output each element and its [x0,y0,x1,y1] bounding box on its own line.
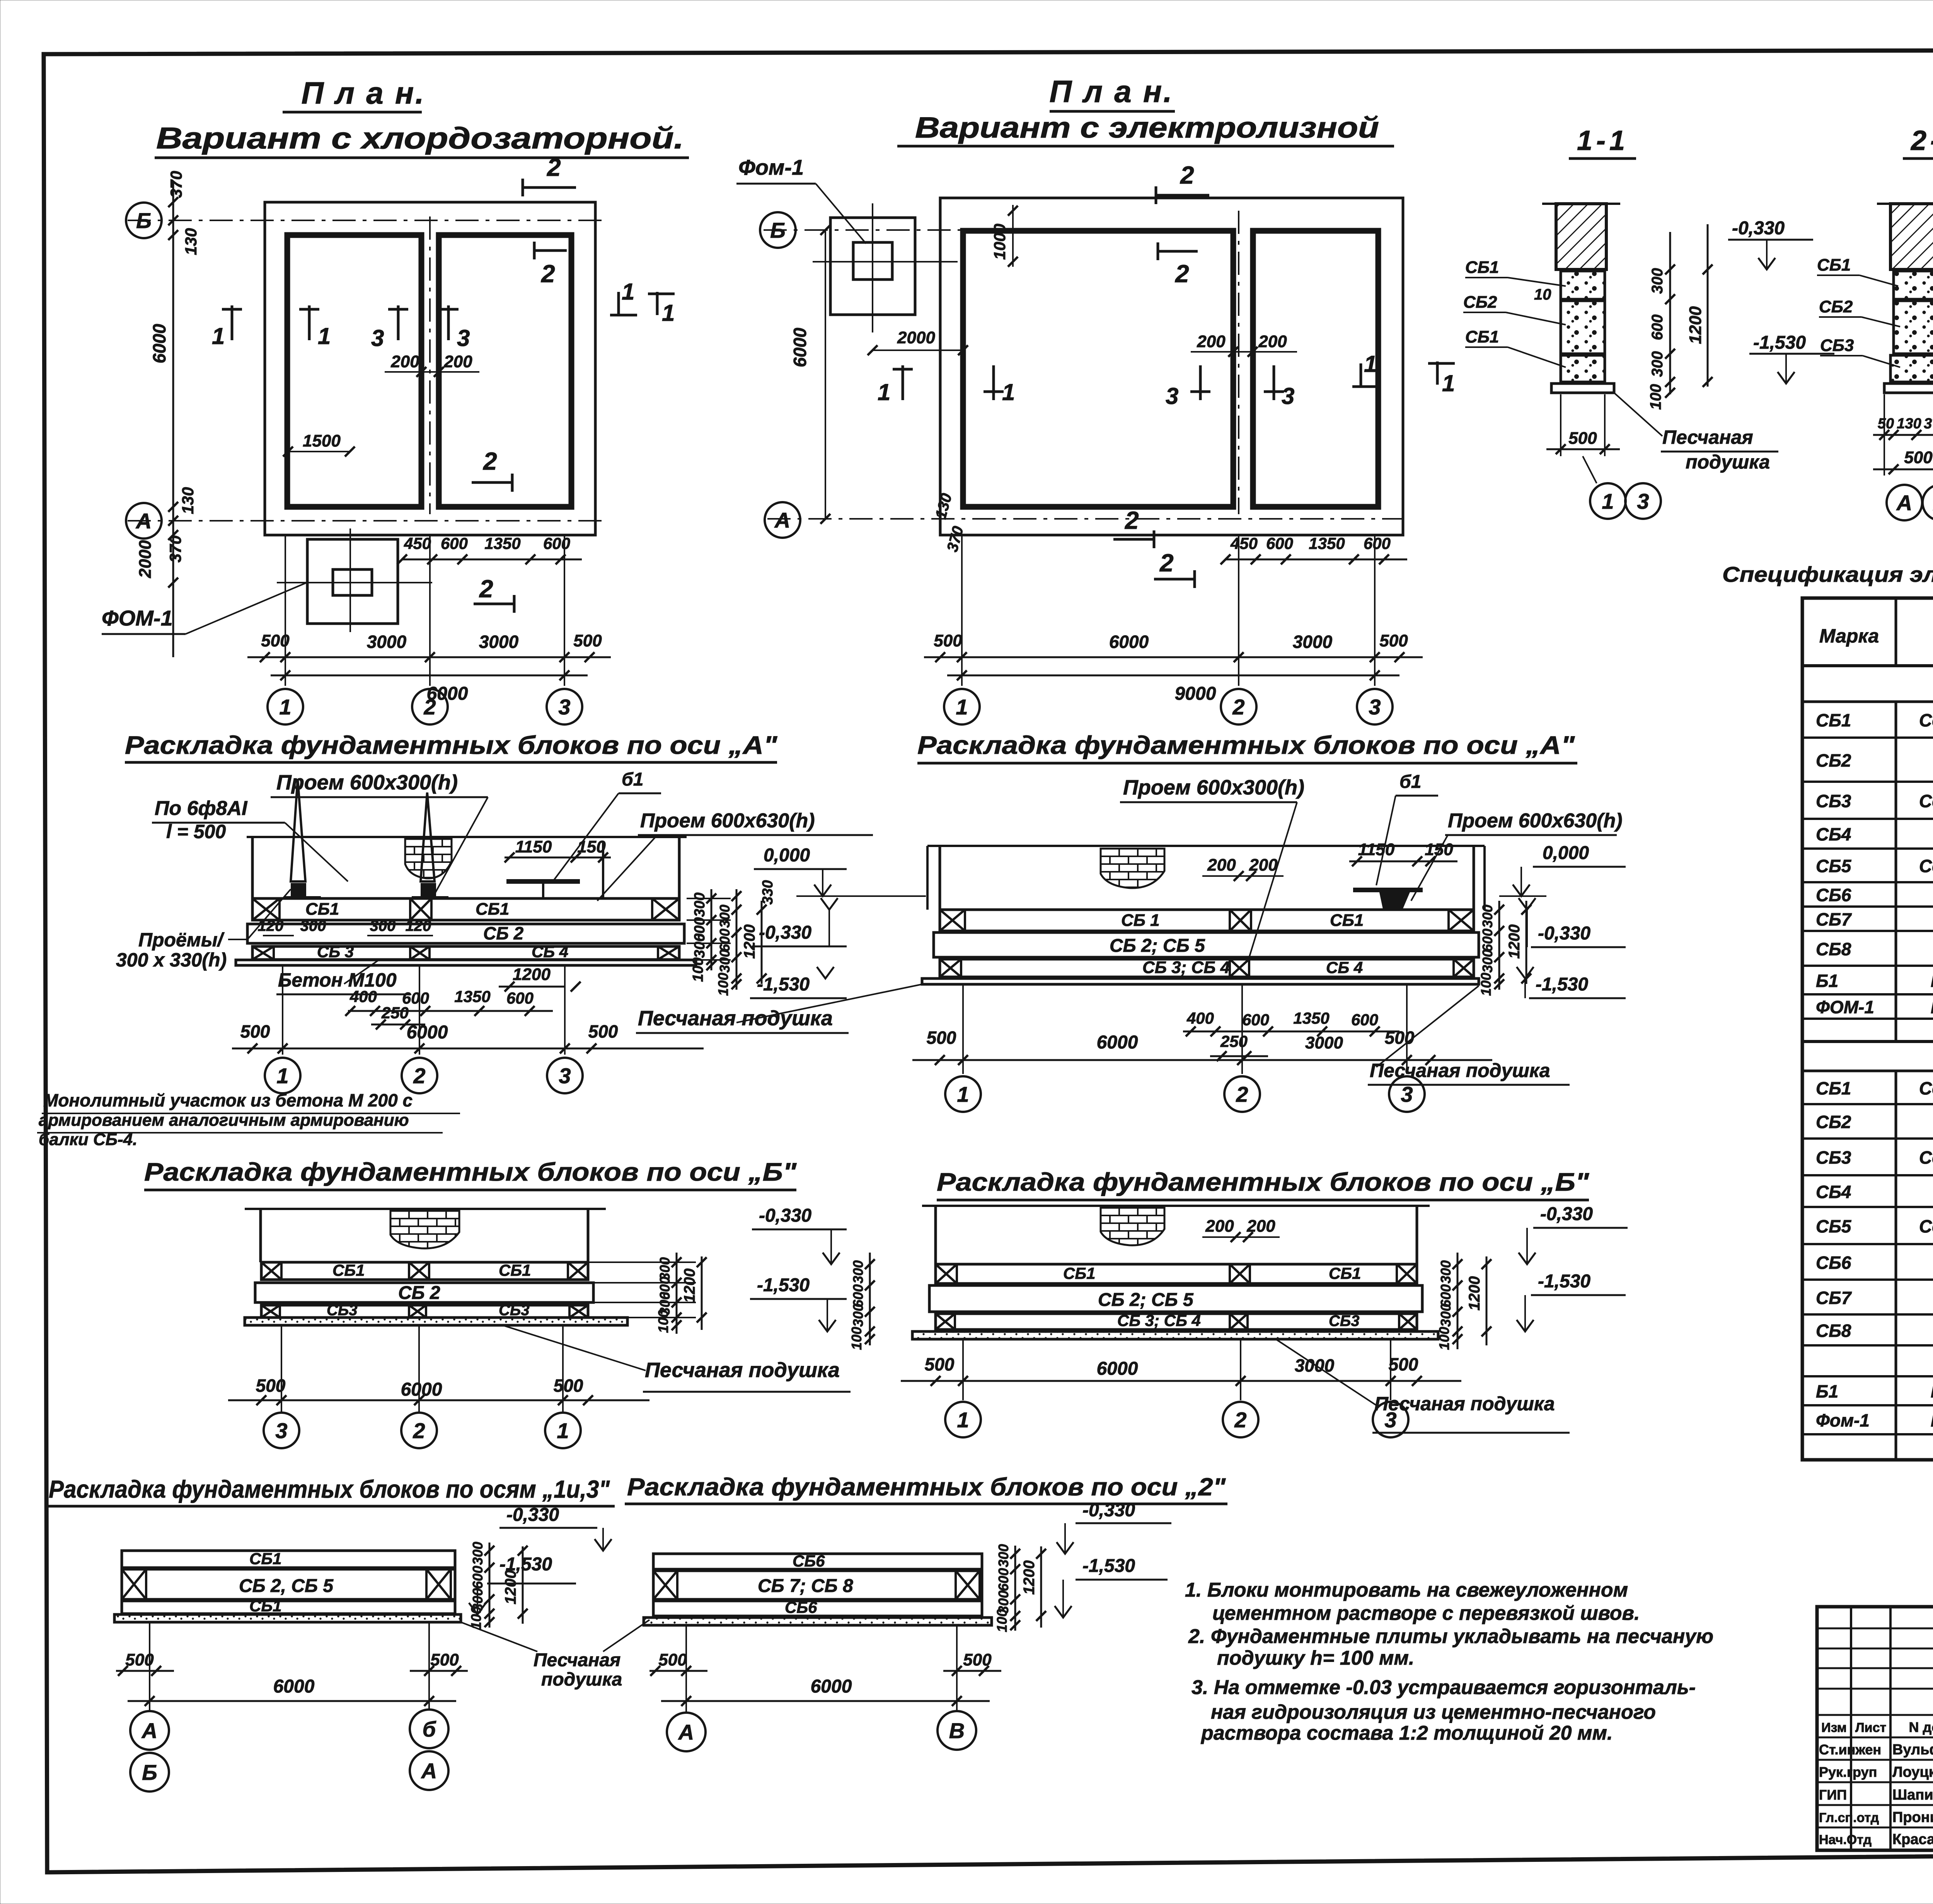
svg-text:6000: 6000 [1109,632,1149,652]
elev ax2 base plate [644,1618,992,1625]
svg-text:А: А [141,1718,157,1743]
svg-text:СБ1: СБ1 [1816,1078,1851,1098]
svg-text:Проем 600x300(h): Проем 600x300(h) [1123,776,1304,799]
spec row СБ7 [1802,930,1933,932]
svg-text:Шапиро: Шапиро [1892,1787,1933,1803]
spec row СБ3 [1802,1174,1933,1176]
svg-text:200: 200 [1197,332,1226,351]
svg-text:СБ2: СБ2 [1819,297,1853,316]
axis B line plan2 [764,229,963,231]
svg-text:300: 300 [1649,351,1666,377]
svg-text:-0,330: -0,330 [1538,923,1590,944]
svg-text:300: 300 [692,934,708,958]
svg-text:-0,330: -0,330 [506,1505,559,1525]
svg-text:Красавин: Красавин [1892,1831,1933,1848]
svg-text:300: 300 [470,1542,486,1565]
svg-text:3000: 3000 [1293,632,1333,652]
plan2 axis column lines [961,535,963,686]
svg-text:2: 2 [547,153,561,181]
spec row Фом-1 [1802,1433,1933,1435]
svg-text:Раскладка фундаментных блоков: Раскладка фундаментных блоков по оси „Б" [144,1157,797,1186]
svg-text:СБ6: СБ6 [1816,885,1851,905]
elev A2 right vertical dims [1498,901,1500,990]
svg-text:600: 600 [506,989,534,1007]
svg-text:300: 300 [717,905,733,928]
svg-text:Фом-1: Фом-1 [1816,1410,1870,1430]
svg-text:А: А [774,508,790,532]
elev 13 right vertical dims [489,1543,491,1628]
svg-text:-0,330: -0,330 [759,922,811,943]
svg-text:10: 10 [1534,286,1551,303]
svg-text:1350: 1350 [1309,534,1345,552]
svg-text:цементном растворе с пер: цементном растворе с перевязкой швов. [1212,1602,1640,1624]
svg-text:СБ1: СБ1 [249,1549,281,1568]
elev B2 axis circles [962,1339,964,1400]
plan2 section mark 2 top [1156,194,1209,197]
svg-text:СБ 2: СБ 2 [483,923,524,943]
svg-text:Гост 948-76: Гост 948-76 [1931,971,1933,991]
spec row СБ7 [1802,1313,1933,1316]
svg-text:3: 3 [1637,489,1649,513]
svg-text:А: А [678,1720,694,1744]
svg-text:500: 500 [934,631,962,650]
svg-text:СБ2: СБ2 [1463,293,1497,312]
spec row СБ6 [1802,1278,1933,1281]
spec row СБ2 [1802,1137,1933,1140]
svg-text:370: 370 [167,171,185,198]
svg-text:СБ3: СБ3 [327,1302,357,1319]
svg-text:Проем 600x630(h): Проем 600x630(h) [1448,810,1623,832]
elev ax2 row SB6 top [653,1554,982,1569]
svg-text:2: 2 [1159,549,1174,577]
spec row СБ5 [1802,881,1933,883]
section 1-1 base plate [1551,384,1614,393]
elev A2 right wall [1473,846,1475,910]
svg-text:2000: 2000 [897,328,935,347]
svg-text:6000: 6000 [149,324,169,363]
svg-text:600: 600 [543,534,570,552]
svg-text:Серия 1.112-1 Вып.1: Серия 1.112-1 Вып.1 [1919,1147,1933,1168]
elev A2 sand leader [736,984,922,1023]
svg-text:300: 300 [1480,949,1495,973]
svg-text:3: 3 [558,695,570,719]
svg-text:СБ 3; СБ 4: СБ 3; СБ 4 [1117,1311,1201,1330]
svg-text:Ст.инжен: Ст.инжен [1819,1742,1881,1757]
svg-text:300: 300 [692,893,708,917]
elev B1 axis circles [281,1325,282,1412]
svg-text:А: А [421,1759,437,1783]
svg-text:100: 100 [1478,973,1494,996]
section 1-1 level -1.530 [1778,372,1795,384]
section 2-2 block SB3 [1890,355,1933,382]
svg-text:2: 2 [1125,506,1139,534]
svg-text:балки СБ-4.: балки СБ-4. [39,1130,137,1149]
svg-text:СБ3: СБ3 [499,1302,529,1319]
svg-text:Песчаная подушка: Песчаная подушка [645,1359,840,1382]
elev A2 wall double lines [926,846,929,910]
spec row СБ8 [1802,1344,1933,1347]
svg-text:СБ6: СБ6 [793,1552,825,1570]
svg-text:300: 300 [1480,905,1495,928]
svg-text:100: 100 [994,1609,1010,1632]
elev A2 lintel b1 [1353,888,1423,892]
svg-text:СБ1: СБ1 [332,1261,365,1279]
section 1-1 level -0.330 [1758,258,1775,269]
axis A line plan1 [128,520,603,522]
svg-text:500: 500 [1379,631,1408,650]
svg-text:Раскладка фундаментных блоков: Раскладка фундаментных блоков по оси „2" [627,1473,1226,1501]
svg-text:150: 150 [577,837,606,856]
elev A1 lintel b1 [506,879,580,884]
svg-text:3: 3 [371,325,384,351]
elev B2 right wall [1416,1206,1418,1264]
svg-text:Вульф: Вульф [1892,1742,1933,1758]
svg-text:2-2: 2-2 [1910,125,1933,156]
svg-text:Гл.сп.отд: Гл.сп.отд [1819,1810,1879,1825]
svg-text:200: 200 [1207,856,1236,874]
svg-text:СБ1: СБ1 [1063,1264,1095,1282]
svg-text:500: 500 [588,1021,618,1041]
elev B1 left wall [259,1209,262,1262]
svg-text:400: 400 [1186,1009,1214,1027]
svg-text:1: 1 [1602,489,1614,513]
svg-text:50: 50 [1878,416,1894,432]
svg-text:1200: 1200 [502,1570,519,1604]
elev A1 row SB1 [252,898,679,920]
elev B2 row SB2 SB5 [929,1285,1422,1312]
svg-text:3000: 3000 [479,632,519,652]
plan2 axis circle 2 [1221,689,1256,724]
elev A1 row SB3 [252,946,679,960]
elev B1 row SB3 [261,1305,588,1318]
plan2 section mark 2 mid [1158,250,1198,253]
svg-text:2. Фундаментные плиты уклады: 2. Фундаментные плиты укладывать на песч… [1188,1625,1713,1648]
elev A2 left vertical dims [736,889,738,990]
svg-text:1. Блоки монтировать на: 1. Блоки монтировать на свежеуложенном [1185,1579,1628,1601]
svg-text:1-1: 1-1 [1577,125,1629,156]
spec row СБ4 [1802,847,1933,850]
svg-text:Песчаная: Песчаная [1662,426,1753,448]
spec row СБ5 [1802,1243,1933,1245]
svg-text:3000: 3000 [367,632,407,652]
svg-text:1000: 1000 [990,224,1009,260]
svg-text:Вариант с хлордозаторной.: Вариант с хлордозаторной. [156,121,684,155]
svg-text:СБ 2; СБ 5: СБ 2; СБ 5 [1110,936,1205,956]
elev ax2 axis circles [685,1625,687,1712]
plan1 section mark 2 top [523,186,576,189]
svg-text:Песчаная подушка: Песчаная подушка [1374,1393,1555,1415]
elev A1 opening posts [291,779,305,881]
svg-text:Лист: Лист [1855,1720,1886,1735]
svg-text:армированием аналогичным арм: армированием аналогичным армированию [39,1111,409,1130]
elev 13 row SB1 bottom [122,1601,455,1614]
section 2-2 block SB2 [1894,301,1933,354]
svg-text:-1,530: -1,530 [1536,974,1588,995]
title block left grid [1850,1607,1852,1850]
svg-text:СБ 2; СБ 5: СБ 2; СБ 5 [1098,1290,1194,1310]
svg-text:600: 600 [470,1566,486,1589]
svg-text:Б1: Б1 [1816,971,1838,991]
svg-text:-1,530: -1,530 [1082,1556,1135,1576]
svg-text:500: 500 [1389,1354,1418,1374]
section 1-1 block SB1 bottom [1561,355,1605,382]
axis A circle plan2 [765,502,800,538]
elev A1 right wall [678,837,681,898]
svg-text:600: 600 [1649,314,1666,340]
svg-text:500: 500 [430,1650,459,1669]
svg-text:1: 1 [212,323,225,349]
plan 1 room 2 wall [439,235,571,507]
elev B2 top line [922,1205,1430,1207]
svg-text:Пронин: Пронин [1892,1809,1933,1826]
svg-text:СБ2: СБ2 [1816,1112,1851,1132]
svg-text:б: б [423,1717,436,1741]
svg-text:Песчаная подушка: Песчаная подушка [638,1007,833,1030]
svg-text:130: 130 [179,487,197,514]
svg-text:300: 300 [850,1260,866,1284]
svg-text:300: 300 [1438,1260,1454,1284]
svg-text:ГИП: ГИП [1819,1787,1847,1803]
svg-text:Раскладка фундаментных блоков: Раскладка фундаментных блоков по оси „А" [125,731,777,759]
section 2-2 block SB1 [1894,271,1933,299]
svg-text:СБ 1: СБ 1 [1121,911,1160,930]
svg-text:Рук.груп: Рук.груп [1819,1764,1877,1780]
svg-text:500: 500 [1385,1028,1415,1048]
svg-text:600: 600 [1364,534,1391,552]
svg-text:СБ2: СБ2 [1816,750,1851,770]
svg-text:100: 100 [849,1327,864,1350]
elev B1 right wall [587,1209,590,1262]
svg-text:б1: б1 [622,769,643,790]
svg-text:Б: Б [142,1760,157,1785]
spec row СБ1 [1802,1103,1933,1105]
svg-text:1: 1 [957,1082,969,1106]
svg-text:100: 100 [690,958,706,982]
plan1 dim 6000 bottom [271,675,588,677]
svg-text:СБ1: СБ1 [305,900,339,919]
elev A2 axis circles [962,984,964,1074]
svg-text:Вариант с электролизной: Вариант с электролизной [915,111,1379,144]
svg-text:6000: 6000 [1097,1359,1138,1379]
svg-text:Марка: Марка [1819,625,1879,647]
svg-text:СБ1: СБ1 [1465,327,1499,346]
svg-text:200: 200 [1258,332,1287,351]
svg-text:2: 2 [1180,161,1194,189]
axis B circle plan2 [760,212,796,248]
axis B circle plan1 [126,203,162,238]
svg-text:Б: Б [136,208,152,233]
svg-text:КЖ-3: КЖ-3 [1931,997,1933,1017]
svg-text:1200: 1200 [681,1268,698,1303]
svg-text:120: 120 [406,917,431,934]
elev A2 row SB3 SB4 [940,959,1474,977]
plan 1 room 1 wall [287,235,421,507]
svg-text:-1,530: -1,530 [1538,1271,1590,1292]
svg-text:2: 2 [1236,1082,1248,1106]
svg-text:500: 500 [240,1021,270,1041]
plan1 section marks 3 [397,305,400,340]
svg-text:Серия 1.116-1 Вып.1: Серия 1.116-1 Вып.1 [1919,1078,1933,1098]
svg-text:Б: Б [770,218,786,242]
svg-text:СБ1: СБ1 [1817,256,1851,274]
svg-text:Гост 948-76: Гост 948-76 [1931,1381,1933,1401]
title block left outer [1817,1607,1933,1850]
svg-text:СБ 7; СБ 8: СБ 7; СБ 8 [758,1576,853,1596]
svg-text:-0,330: -0,330 [759,1205,811,1226]
svg-text:330: 330 [760,880,776,905]
svg-text:Песчаная подушка: Песчаная подушка [1370,1060,1550,1081]
svg-text:500: 500 [927,1028,956,1048]
svg-text:Проем 600x300(h): Проем 600x300(h) [276,771,458,794]
svg-text:500: 500 [1568,429,1597,448]
svg-text:1200: 1200 [1466,1276,1483,1311]
svg-text:СБ1: СБ1 [1816,710,1851,730]
svg-text:СБ4: СБ4 [1816,1182,1851,1202]
svg-text:300: 300 [1649,268,1666,294]
svg-text:СБ 2: СБ 2 [398,1283,440,1303]
svg-text:3000: 3000 [1305,1033,1343,1052]
plan 2 outer wall [940,198,1403,535]
svg-text:3: 3 [1369,695,1381,719]
elev A1 top line [247,836,687,838]
svg-text:N докум.: N докум. [1909,1719,1933,1735]
svg-text:б1: б1 [1399,772,1421,792]
svg-text:2: 2 [1232,695,1244,719]
axis 2 dashed plan1 [429,216,431,514]
svg-text:подушка: подушка [541,1669,622,1690]
elev B2 base plate [912,1331,1438,1339]
svg-text:СБ1: СБ1 [476,900,509,919]
elev 13 row SB1 top [122,1551,455,1568]
svg-text:-0,330: -0,330 [1732,218,1785,239]
svg-text:СБ3: СБ3 [1329,1313,1359,1330]
svg-text:1: 1 [662,300,675,326]
elev B2 row SB1 [936,1264,1417,1284]
spec row Б1 [1802,993,1933,995]
svg-text:450: 450 [1230,534,1258,552]
section 1-1 axis circles [1583,456,1597,483]
svg-text:1200: 1200 [1506,924,1523,959]
elev B2 left wall [934,1206,937,1264]
svg-text:1: 1 [318,323,331,349]
plan2 section mark 1 right [1360,363,1362,387]
svg-text:А: А [135,509,152,533]
svg-text:СБ1: СБ1 [1465,258,1499,277]
plan1 axis circle 3 [547,689,582,724]
plan2 axis circle 1 [944,689,980,724]
section 1-1 right dims [1669,232,1671,394]
svg-text:1200: 1200 [513,965,551,984]
svg-text:1200: 1200 [741,924,758,959]
axis A circle plan1 [126,503,162,539]
spec row СБ1 [1802,736,1933,739]
svg-text:600: 600 [995,1568,1011,1591]
svg-text:500: 500 [658,1650,687,1669]
svg-text:130: 130 [182,228,200,255]
svg-text:6000: 6000 [407,1022,448,1043]
svg-text:Серия 1.116-1 Вып.1: Серия 1.116-1 Вып.1 [1919,856,1933,876]
svg-text:Изм: Изм [1821,1720,1847,1735]
svg-text:370: 370 [166,535,184,563]
svg-text:1350: 1350 [484,534,520,552]
svg-text:600: 600 [1480,929,1495,952]
svg-text:3: 3 [1166,383,1178,409]
svg-text:Лоуцкер: Лоуцкер [1892,1764,1933,1780]
elev A1 left wall [251,837,254,898]
svg-text:подушку h= 100 мм.: подушку h= 100 мм. [1217,1647,1414,1669]
svg-text:300: 300 [995,1544,1011,1567]
plan1 left vertical dims [172,182,174,657]
elev B1 row SB2 [255,1283,593,1302]
svg-text:Спецификация элементов к марки: Спецификация элементов к маркировочной с… [1722,562,1933,586]
elev ax2 right vertical dims [1014,1546,1016,1631]
svg-text:1: 1 [1364,351,1377,377]
svg-text:П л а н.: П л а н. [1049,74,1173,109]
svg-text:3: 3 [275,1418,287,1443]
svg-text:1: 1 [622,279,634,305]
svg-text:Серия 1.116-1 Вып.1: Серия 1.116-1 Вып.1 [1919,710,1933,730]
svg-text:СБ7: СБ7 [1816,909,1852,929]
spec row СБ2 [1802,781,1933,783]
svg-text:3: 3 [457,325,470,351]
svg-text:СБ5: СБ5 [1816,856,1852,876]
svg-text:200: 200 [443,352,472,371]
svg-text:600: 600 [717,929,733,952]
axis A line plan2 [767,518,1403,520]
svg-text:600: 600 [1351,1011,1378,1029]
plan2 dim 9000 bottom [947,675,1399,677]
spec row ФОМ-1 [1802,1018,1933,1020]
section 2-2 ground line [1877,203,1933,205]
plan1 section mark 1 right [617,292,620,315]
svg-text:1500: 1500 [303,431,341,450]
elev B2 left vertical dims [869,1253,871,1345]
svg-text:Серия 1.112-1 Вып.1: Серия 1.112-1 Вып.1 [1919,791,1933,811]
svg-text:-0,330: -0,330 [1540,1204,1593,1224]
svg-text:200: 200 [390,352,419,371]
svg-text:Серия 1.116-1 Вып.1: Серия 1.116-1 Вып.1 [1919,1216,1933,1236]
svg-text:100: 100 [1436,1327,1452,1350]
svg-text:1200: 1200 [1686,306,1705,344]
svg-text:600: 600 [1266,534,1293,552]
svg-text:500: 500 [925,1354,955,1374]
section 1-1 ground line [1542,203,1620,205]
svg-text:200: 200 [1205,1217,1234,1236]
svg-text:3: 3 [1282,383,1294,409]
svg-text:Нач.Отд: Нач.Отд [1819,1832,1872,1847]
plan2 FOM-1 foundation [830,218,915,315]
elev A2 row SB2 SB5 [934,932,1479,957]
svg-text:1350: 1350 [1293,1009,1329,1027]
plan2 section marks 1 [902,365,904,400]
svg-text:600: 600 [441,534,468,552]
svg-text:1150: 1150 [1358,840,1395,859]
svg-text:Фом-1: Фом-1 [738,155,804,179]
svg-text:-0,330: -0,330 [1082,1500,1135,1520]
section 1-1 brick column [1556,204,1606,269]
svg-text:-1,530: -1,530 [757,974,810,995]
elev B1 base plate [245,1318,627,1325]
svg-text:370: 370 [1924,416,1933,432]
section 2-2 brick column [1890,204,1933,269]
svg-text:СБ8: СБ8 [1816,1321,1851,1341]
svg-text:По 6ф8АІ: По 6ф8АІ [155,797,248,820]
svg-text:1150: 1150 [515,837,552,856]
svg-text:СБ1: СБ1 [1329,1264,1361,1282]
elev A2 row SB1 [940,910,1474,931]
svg-text:СБ5: СБ5 [1816,1216,1852,1236]
svg-text:130: 130 [1897,416,1921,432]
